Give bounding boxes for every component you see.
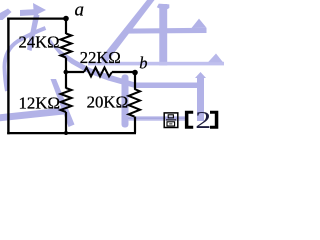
watermark stroke: lower right vertical	[197, 78, 204, 121]
resistor R 24K zigzag	[61, 34, 72, 58]
node a dot	[63, 16, 69, 22]
resistor R 20K zigzag	[129, 89, 141, 117]
watermark stroke: steep diagonal behind 12K	[51, 79, 75, 127]
watermark stroke: big right diagonal	[101, 0, 155, 66]
watermark stroke: top vertical	[159, 4, 167, 66]
svg-text:24KΩ: 24KΩ	[19, 32, 60, 51]
resistor R 22K zigzag	[84, 68, 112, 77]
wire: middle vertical between 24K and junction	[65, 58, 67, 89]
svg-text:a: a	[75, 0, 85, 20]
node bottom junction dot	[64, 131, 68, 135]
node junction dot (mid)	[64, 70, 69, 75]
wire: middle horizontal right (22K to b)	[112, 71, 135, 73]
watermark stroke: left arc	[5, 28, 46, 91]
watermark stroke: right horizontal bar	[124, 28, 207, 34]
watermark stroke: thin right line	[88, 62, 224, 66]
watermark stroke: light band behind caption	[128, 116, 187, 121]
watermark stroke: bottom-left band	[0, 107, 66, 121]
wire: top horizontal	[7, 18, 66, 20]
wire: middle vertical lower (12K to bottom)	[65, 112, 67, 133]
watermark stroke: band core line	[128, 117, 187, 119]
svg-text:20KΩ: 20KΩ	[87, 92, 128, 111]
wire: middle vertical upper (a to 24K)	[65, 19, 67, 34]
svg-text:b: b	[139, 54, 147, 73]
watermark stroke: vertical left flag	[157, 4, 170, 10]
svg-text:12KΩ: 12KΩ	[19, 93, 60, 112]
watermark stroke: small left-falling tail	[27, 14, 40, 51]
svg-text:22KΩ: 22KΩ	[80, 48, 121, 67]
wire: middle horizontal left (junction to 22K)	[66, 71, 84, 73]
watermark stroke: thin line serif	[208, 54, 223, 63]
watermark stroke: top horizontal flag bar	[20, 9, 38, 16]
svg-text:2: 2	[195, 107, 211, 134]
wire: bottom horizontal	[7, 132, 136, 134]
watermark stroke: lower right vertical pointed top	[195, 72, 206, 78]
caption bracket left	[185, 111, 193, 129]
watermark stroke: bar right serif	[192, 19, 207, 28]
wire: right vertical upper (b to 20K)	[134, 72, 136, 90]
node b dot	[132, 70, 138, 76]
watermark stroke: left flank vertical of 20K	[122, 75, 129, 128]
watermark stroke: long sweeping curve to right bar	[49, 39, 205, 88]
watermark stroke: flag arrowhead	[33, 3, 46, 16]
resistor R 12K zigzag	[61, 88, 72, 112]
watermark stroke: top-left arrow tip	[0, 9, 12, 21]
caption glyph: tu (figure) drawn box	[164, 113, 178, 128]
wire: right vertical lower (20K to bottom)	[134, 117, 136, 133]
caption bracket right	[210, 111, 218, 129]
wire: left vertical	[7, 18, 9, 135]
